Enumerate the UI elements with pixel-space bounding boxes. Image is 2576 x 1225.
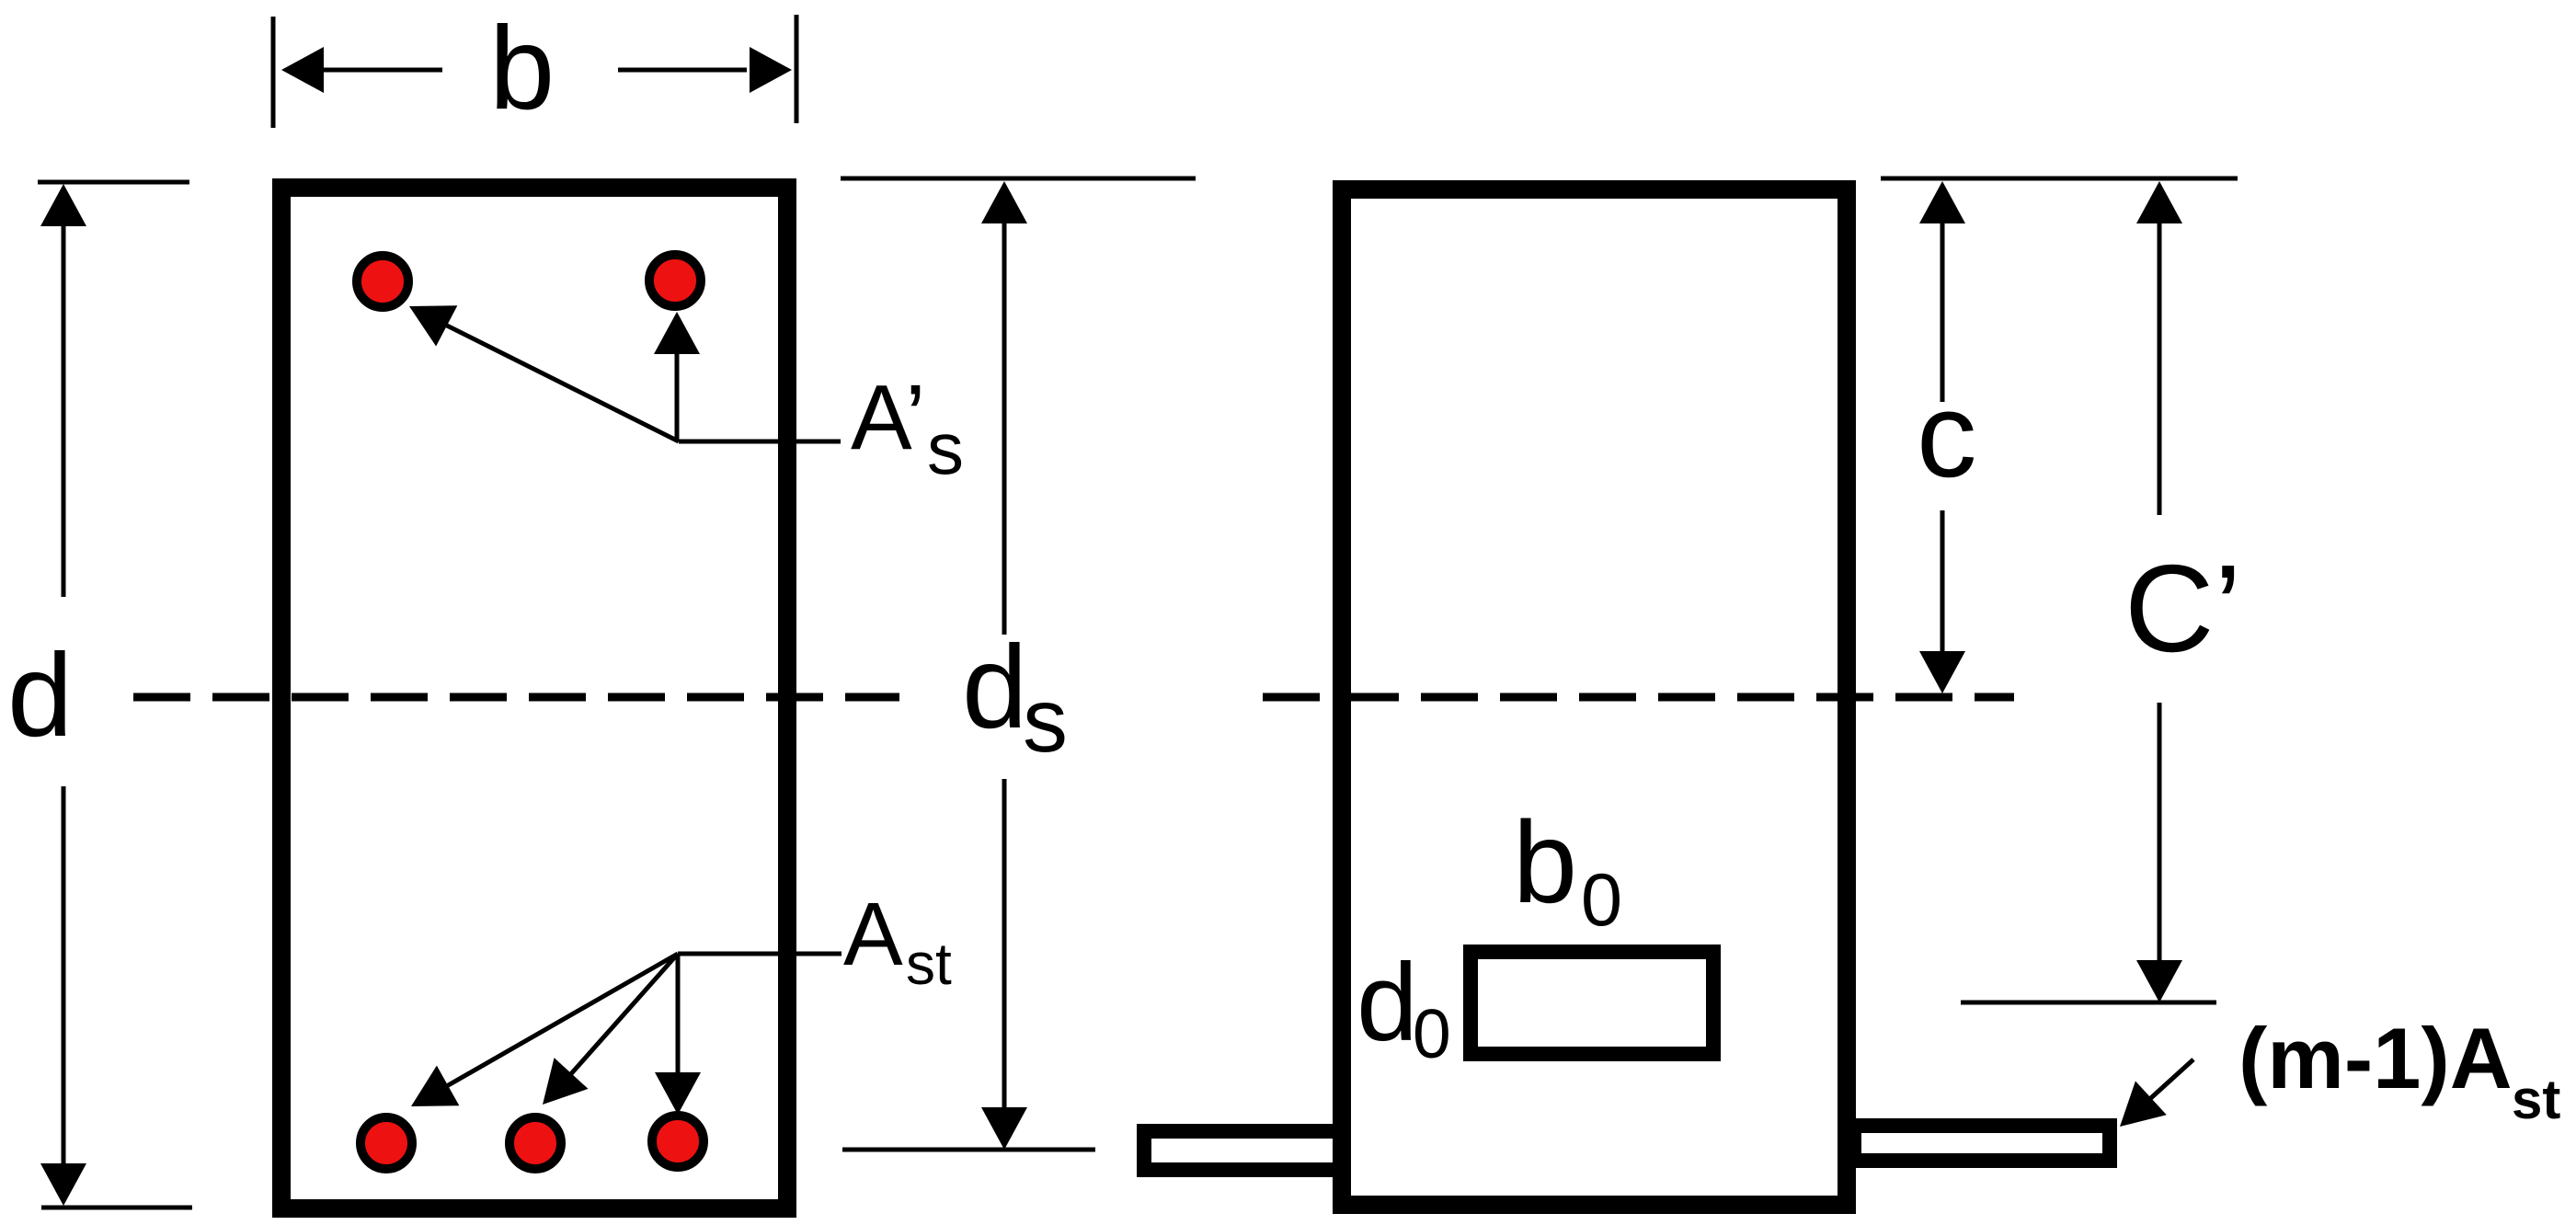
svg-text:0: 0 <box>1413 995 1451 1072</box>
svg-text:A’: A’ <box>851 366 926 469</box>
svg-text:st: st <box>906 931 952 997</box>
svg-text:s: s <box>1023 670 1068 771</box>
svg-text:b: b <box>1513 797 1577 927</box>
svg-text:c: c <box>1917 367 1977 502</box>
svg-text:s: s <box>927 407 964 489</box>
svg-text:d: d <box>7 630 73 761</box>
svg-text:A: A <box>843 884 903 984</box>
svg-text:d: d <box>1357 941 1418 1064</box>
svg-text:st: st <box>2512 1069 2560 1130</box>
svg-text:d: d <box>962 622 1027 753</box>
svg-text:0: 0 <box>1581 859 1622 942</box>
svg-text:C’: C’ <box>2124 539 2242 678</box>
svg-text:b: b <box>489 3 555 134</box>
svg-text:(m-1)A: (m-1)A <box>2238 1010 2513 1106</box>
